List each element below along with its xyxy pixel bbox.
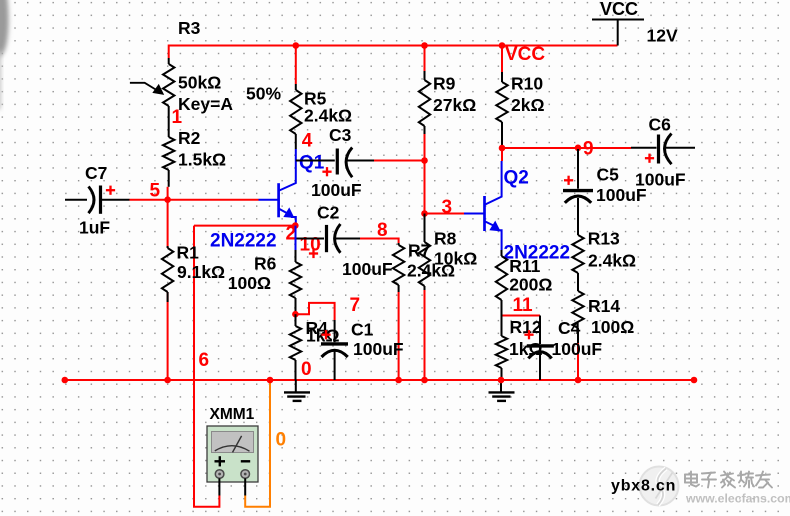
svg-text:1uF: 1uF bbox=[79, 218, 110, 238]
svg-text:Q2: Q2 bbox=[504, 168, 529, 189]
capacitor C2 bbox=[297, 203, 393, 280]
watermark url bbox=[685, 492, 790, 507]
svg-text:C7: C7 bbox=[85, 163, 107, 183]
resistor R2 bbox=[163, 128, 226, 187]
wire: R8 bottom lead to ground rail bbox=[424, 290, 426, 380]
node 7 label bbox=[350, 295, 361, 316]
svg-text:2.4kΩ: 2.4kΩ bbox=[588, 250, 636, 270]
svg-text:R3: R3 bbox=[178, 18, 201, 38]
node 6 label bbox=[199, 350, 210, 371]
svg-text:2kΩ: 2kΩ bbox=[511, 95, 545, 115]
ground (right) bbox=[489, 380, 515, 401]
svg-text:100uF: 100uF bbox=[311, 180, 362, 200]
junction R9/VCC bbox=[421, 42, 428, 49]
svg-text:R9: R9 bbox=[433, 74, 456, 94]
svg-text:1kΩ: 1kΩ bbox=[509, 339, 543, 359]
svg-text:C2: C2 bbox=[317, 203, 340, 223]
wire: C2 to R7 (net 8) bbox=[360, 239, 399, 244]
svg-text:C1: C1 bbox=[351, 320, 374, 340]
svg-text:C6: C6 bbox=[649, 115, 672, 135]
node 11 label bbox=[513, 295, 534, 316]
node 9 junction bbox=[575, 145, 582, 152]
node 8 label bbox=[377, 220, 388, 241]
potentiometer R3 bbox=[130, 18, 282, 137]
capacitor C5 bbox=[563, 149, 647, 235]
svg-text:9.1kΩ: 9.1kΩ bbox=[177, 262, 225, 282]
node 0 label (left ground) bbox=[301, 359, 312, 380]
junction rail/R14 bbox=[575, 377, 582, 384]
decorative corner shade bbox=[0, 0, 9, 110]
svg-text:100uF: 100uF bbox=[552, 339, 603, 359]
svg-text:50%: 50% bbox=[246, 84, 281, 104]
node 2 label bbox=[286, 224, 297, 245]
wire: R9 top lead bbox=[424, 46, 426, 72]
multimeter XMM1 bbox=[207, 406, 258, 496]
transistor Q1 (2N2222) bbox=[210, 149, 325, 252]
wire: VCC top rail (net VCC) bbox=[169, 46, 618, 59]
svg-text:Key=A: Key=A bbox=[178, 94, 233, 114]
resistor R12 bbox=[496, 316, 543, 381]
watermark logo circle bbox=[640, 467, 679, 506]
wire: net 2 horizontal from XMM branch bbox=[194, 225, 295, 227]
wire: node 5 down to R1 bbox=[167, 200, 169, 248]
capacitor C4 bbox=[527, 316, 603, 381]
C1 polarity + bbox=[321, 330, 330, 339]
resistor R13 bbox=[572, 229, 636, 291]
svg-text:C5: C5 bbox=[597, 165, 620, 185]
capacitor C6 bbox=[631, 115, 695, 190]
svg-text:100Ω: 100Ω bbox=[591, 317, 634, 337]
wire: R5 top lead bbox=[295, 46, 297, 85]
svg-text:R6: R6 bbox=[254, 254, 277, 274]
svg-text:R8: R8 bbox=[434, 229, 457, 249]
svg-text:R7: R7 bbox=[408, 241, 430, 261]
junction C3/R9 column bbox=[421, 157, 428, 164]
svg-text:7: 7 bbox=[350, 295, 361, 316]
svg-text:0: 0 bbox=[301, 359, 312, 380]
junction rail/R7 bbox=[395, 377, 402, 384]
svg-text:2N2222: 2N2222 bbox=[210, 231, 277, 252]
svg-text:0: 0 bbox=[276, 430, 287, 451]
svg-text:R13: R13 bbox=[588, 229, 620, 249]
svg-text:1: 1 bbox=[172, 107, 183, 128]
power VCC symbol bbox=[592, 0, 678, 46]
svg-text:VCC: VCC bbox=[505, 44, 545, 65]
svg-text:R1: R1 bbox=[177, 243, 200, 263]
wire: R7 bottom lead to rail bbox=[398, 292, 400, 380]
junction rail/R8 bbox=[421, 377, 428, 384]
node 4 label bbox=[302, 131, 313, 152]
transistor Q2 (2N2222) bbox=[464, 161, 570, 264]
capacitor C3 bbox=[296, 125, 374, 200]
capacitor C7 bbox=[65, 163, 130, 238]
watermark ybx8.cn bbox=[611, 478, 676, 495]
C6 polarity + bbox=[645, 154, 654, 163]
wire: ground rail (net 0) bbox=[65, 379, 694, 381]
wire: R10 top lead bbox=[501, 46, 503, 73]
svg-text:Q1: Q1 bbox=[299, 153, 325, 174]
node 3 label bbox=[442, 197, 453, 218]
C7 polarity + bbox=[106, 186, 115, 195]
svg-text:C3: C3 bbox=[329, 125, 352, 145]
svg-text:XMM1: XMM1 bbox=[210, 406, 255, 423]
wire: R1 bottom to rail (net 6) bbox=[167, 292, 169, 380]
node 2 junction bbox=[292, 222, 299, 229]
svg-text:27kΩ: 27kΩ bbox=[433, 95, 476, 115]
junction Q2 collector / net 9 bbox=[499, 145, 506, 152]
wire: Q2 collector stub bbox=[501, 148, 503, 161]
wire: net 7 step from R6/R4 junction to C1 bbox=[295, 303, 334, 320]
svg-text:2.4kΩ: 2.4kΩ bbox=[304, 106, 352, 126]
svg-text:R2: R2 bbox=[178, 128, 201, 148]
resistor R7 bbox=[393, 241, 455, 293]
wire: C3 to node column (net between C3 and R8/R9) bbox=[374, 160, 425, 162]
resistor R5 bbox=[290, 84, 352, 149]
svg-text:11: 11 bbox=[513, 295, 534, 316]
junction R5/VCC bbox=[293, 42, 300, 49]
junction R10/VCC bbox=[499, 42, 506, 49]
svg-text:6: 6 bbox=[199, 350, 210, 371]
watermark chinese characters bbox=[685, 472, 773, 489]
ground (left) bbox=[284, 380, 310, 401]
wire: R14 bottom lead to rail bbox=[577, 343, 579, 380]
svg-text:R14: R14 bbox=[588, 296, 620, 316]
svg-text:2.4kΩ: 2.4kΩ bbox=[407, 261, 455, 281]
svg-text:R10: R10 bbox=[511, 74, 543, 94]
junction rail/R12 bbox=[498, 377, 505, 384]
svg-text:9: 9 bbox=[583, 139, 594, 160]
junction node 5 bbox=[164, 196, 171, 203]
junction rail/R1 bbox=[164, 377, 171, 384]
C5 polarity + bbox=[564, 176, 573, 185]
label XMM1 net 0 (orange) bbox=[276, 430, 287, 451]
svg-text:5: 5 bbox=[150, 181, 161, 202]
wire: node 3 to Q2 base bbox=[425, 213, 465, 215]
wire: R9 bottom to node 3 column bbox=[424, 134, 426, 214]
junction rail/XMM orange bbox=[267, 377, 274, 384]
resistor R6 bbox=[228, 226, 301, 315]
svg-text:100uF: 100uF bbox=[635, 170, 686, 190]
C2 polarity + bbox=[309, 249, 318, 258]
node 5 label bbox=[150, 181, 161, 202]
node 7 junction bbox=[292, 311, 299, 318]
label VCC net (red) bbox=[505, 44, 545, 65]
resistor R9 bbox=[419, 71, 476, 134]
svg-text:200Ω: 200Ω bbox=[509, 275, 552, 295]
svg-text:8: 8 bbox=[377, 220, 388, 241]
svg-text:ybx8.cn: ybx8.cn bbox=[611, 478, 676, 495]
C3 polarity + bbox=[322, 167, 331, 176]
svg-text:3: 3 bbox=[442, 197, 453, 218]
node 10 label bbox=[300, 235, 321, 256]
wire: input net 5 horizontal bbox=[130, 199, 259, 201]
resistor R4 bbox=[290, 314, 340, 380]
resistor R11 bbox=[496, 250, 553, 316]
resistor R1 bbox=[162, 243, 225, 303]
node 1 label bbox=[172, 107, 183, 128]
junction rail/left end bbox=[62, 377, 69, 384]
junction rail/right end bbox=[691, 377, 698, 384]
wire: XMM1 negative branch (orange) bbox=[245, 380, 270, 507]
C4 polarity + bbox=[524, 330, 533, 339]
wire: R11/R12 junction to C4 (net 11) bbox=[502, 315, 541, 317]
svg-text:100uF: 100uF bbox=[342, 259, 393, 279]
svg-text:100uF: 100uF bbox=[353, 339, 404, 359]
svg-text:100Ω: 100Ω bbox=[228, 273, 271, 293]
node 3 junction bbox=[421, 210, 428, 217]
svg-text:1.5kΩ: 1.5kΩ bbox=[178, 150, 226, 170]
wire: collector row net 9 to C6 bbox=[502, 147, 631, 149]
svg-text:2: 2 bbox=[286, 224, 297, 245]
svg-text:12V: 12V bbox=[647, 26, 678, 46]
svg-text:VCC: VCC bbox=[600, 0, 638, 19]
svg-text:www.elecfans.com: www.elecfans.com bbox=[685, 492, 790, 506]
resistor R8 bbox=[419, 214, 477, 291]
wire: XMM1 positive branch bbox=[194, 226, 219, 507]
resistor R14 bbox=[572, 291, 634, 343]
svg-text:R11: R11 bbox=[509, 256, 540, 276]
svg-text:4: 4 bbox=[302, 131, 313, 152]
resistor R10 bbox=[496, 72, 544, 148]
svg-text:50kΩ: 50kΩ bbox=[178, 73, 221, 93]
capacitor C1 bbox=[321, 320, 404, 381]
node 9 label bbox=[583, 139, 594, 160]
wire: R2 bottom to node 5 bbox=[167, 187, 169, 200]
